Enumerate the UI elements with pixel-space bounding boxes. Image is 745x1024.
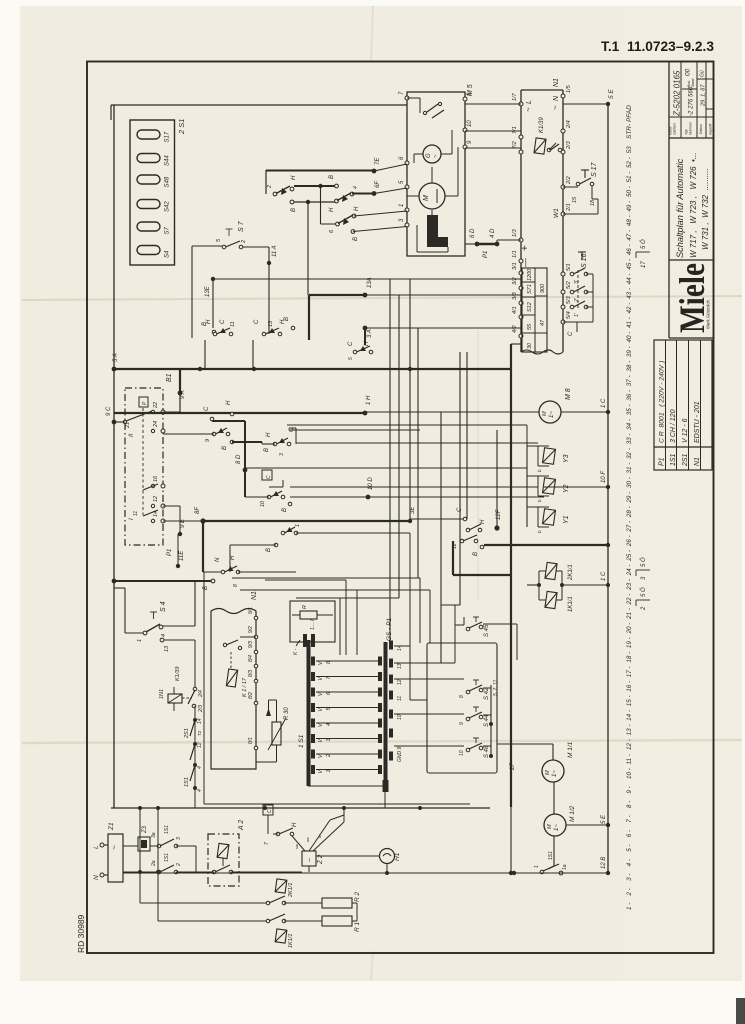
svg-text:3/2: 3/2 [512,277,518,285]
svg-text:M: M [545,770,551,775]
svg-text:2S1: 2S1 [184,728,190,739]
comb bottom pad [383,780,389,792]
svg-text:1 -: 1 - [626,903,633,910]
svg-text:13: 13 [397,663,403,669]
svg-text:H: H [291,175,297,180]
heavy wire 12F to bus [484,544,608,546]
svg-text:16 -: 16 - [626,681,633,692]
svg-text:12 B: 12 B [601,857,607,869]
wire bundle above combs [232,577,420,579]
svg-text:2S1: 2S1 [682,453,689,467]
svg-text:Z3: Z3 [142,825,148,834]
heater branch [138,806,142,810]
svg-text:3 A: 3 A [367,329,373,338]
svg-text:S 45: S 45 [484,624,490,637]
svg-text:~: ~ [110,845,119,850]
svg-text:14: 14 [197,718,203,724]
relay 1N1 K1/39 [168,694,182,703]
N1 module wavy box [211,609,256,770]
heater R1 [322,916,352,926]
contact S17 [576,182,580,186]
svg-text:GND 9: GND 9 [397,747,403,763]
svg-text:C: C [568,331,574,336]
lamp window S4 [137,246,160,255]
svg-text:N: N [93,875,100,880]
stub 9A [179,369,181,412]
svg-text:H: H [206,319,212,324]
svg-text:17: 17 [641,261,647,268]
svg-text:L: L [93,845,100,849]
svg-text:P1: P1 [167,549,173,556]
svg-text:II: II [129,433,135,437]
svg-text:K -: K - [293,648,299,655]
svg-text:42 -: 42 - [626,303,633,314]
switch S 48 [466,748,470,752]
line 5A (heavy) [114,368,511,370]
svg-text:20 -: 20 - [626,623,633,635]
svg-text:1 H: 1 H [366,395,372,405]
svg-text:S71: S71 [527,284,533,294]
line 6F heavy [372,191,377,196]
svg-text:3/1: 3/1 [512,262,518,270]
comb row 5 [311,703,315,712]
comb row 3 [311,734,315,743]
svg-text:N: N [215,557,221,562]
svg-text:5 E: 5 E [601,814,607,824]
N1 terminals [254,616,258,620]
svg-text:Gü: Gü [700,70,706,77]
svg-text:48 -: 48 - [626,215,633,226]
svg-text:9/1: 9/1 [248,607,254,614]
svg-text:9 E: 9 E [180,518,186,528]
P1 heater plug 6D-4D [477,243,497,246]
svg-text:G: G [426,153,432,158]
svg-text:1: 1 [137,639,143,642]
second bottom line [204,803,470,805]
svg-text:1S1: 1S1 [184,777,190,787]
svg-text:C: C [266,475,272,479]
svg-text:8/1: 8/1 [248,737,254,744]
svg-text:9 A: 9 A [180,390,186,399]
valve Y2 [543,478,556,494]
svg-text:5/1: 5/1 [566,263,572,271]
svg-text:B1: B1 [166,373,173,382]
svg-text:T.1 11.0723–9.2.3: T.1 11.0723–9.2.3 [601,38,714,54]
svg-text:~: ~ [307,858,314,862]
title data table [669,137,713,139]
svg-text:B: B [264,448,270,452]
svg-text:5/3: 5/3 [566,295,572,304]
svg-text:M 8: M 8 [565,388,572,400]
svg-text:31 -: 31 - [626,463,633,474]
svg-text:38 -: 38 - [626,361,633,372]
svg-text:11E: 11E [179,550,185,561]
svg-text:T2: T2 [197,730,202,736]
svg-text:10 F: 10 F [601,471,607,483]
svg-text:25 -: 25 - [626,550,633,562]
svg-text:1S1: 1S1 [164,825,170,834]
lamp window S44 [137,154,160,163]
svg-text:52 -: 52 - [626,157,633,168]
svg-text:—: — [520,258,530,267]
svg-text:3E: 3E [410,506,416,514]
svg-text:H1: H1 [394,852,401,861]
filter Z3 [138,837,150,851]
drawing border frame [87,62,714,954]
svg-text:K1/39: K1/39 [175,667,181,681]
svg-text:1~: 1~ [552,770,558,777]
svg-text:K1/39: K1/39 [539,117,545,133]
svg-text:6F: 6F [375,181,381,188]
svg-text:9/3: 9/3 [248,641,254,648]
svg-text:S7: S7 [165,226,171,234]
switch S4 [114,587,125,589]
svg-text:Nummer: Nummer [689,121,693,135]
S16 contact 2' [570,290,574,294]
svg-text:C: C [267,809,273,813]
svg-text:21 -: 21 - [626,608,633,620]
contact 3 [273,442,277,446]
svg-text:~: ~ [551,105,560,110]
svg-text:B: B [329,175,335,179]
terminal strip table [522,268,547,352]
svg-text:2: 2 [176,863,182,867]
svg-text:18: 18 [590,199,596,206]
svg-text:W 731 , W 732 ..........: W 731 , W 732 .......... [701,168,710,250]
node 3E [408,519,412,523]
valve Y3 [543,448,556,464]
svg-text:-2 276 560: -2 276 560 [688,86,695,116]
svg-text:4/1: 4/1 [512,306,518,314]
svg-text:Y2: Y2 [563,484,570,493]
svg-text:13: 13 [268,320,274,327]
fold lines [22,296,742,300]
svg-text:C: C [220,319,226,324]
svg-text:P1: P1 [659,457,666,466]
svg-text:28 -: 28 - [626,506,633,518]
svg-text:7 -: 7 - [626,815,633,822]
svg-text:A 2: A 2 [238,820,245,831]
svg-text:8/3: 8/3 [248,670,254,677]
svg-text:1200: 1200 [527,268,533,281]
contact 12F [466,528,470,532]
S16 actuator [578,251,586,253]
node 1H line [114,412,365,414]
svg-text:ws: ws [305,837,310,842]
svg-text:2K1/1: 2K1/1 [288,883,294,898]
svg-text:S48: S48 [165,176,171,187]
svg-text:3/3: 3/3 [512,291,518,300]
R 1...7 resistor box [290,601,335,642]
svg-text:2F: 2F [510,763,516,771]
svg-text:3: 3 [176,837,182,840]
contact 1 triangle [281,531,285,535]
svg-text:21: 21 [125,422,131,429]
svg-text:23 -: 23 - [626,579,633,591]
motor M1/2 [544,814,566,836]
svg-text:S 17: S 17 [591,161,598,177]
svg-text:4: 4 [161,634,167,637]
svg-text:4 -: 4 - [626,859,633,866]
svg-text:35 -: 35 - [626,404,633,415]
svg-text:STR- PFAD: STR- PFAD [626,105,633,139]
comb row 4 [311,719,315,728]
wire 13 [160,638,164,642]
signal lamp H1 [380,849,395,864]
svg-text:1: 1 [399,204,405,207]
svg-text:5 Ö: 5 Ö [640,239,647,249]
P motor box [139,397,148,407]
svg-text:8 D: 8 D [236,454,242,464]
svg-text:12: 12 [153,496,159,502]
comb row 7 [311,672,315,681]
svg-text:10 D: 10 D [368,477,374,490]
wires from GS-P1 to switches [394,645,410,647]
N1 right terminals [561,94,565,98]
svg-text:2 S1: 2 S1 [177,119,186,135]
svg-text:6 D: 6 D [470,228,476,238]
svg-text:9: 9 [459,722,465,725]
svg-text:1 C: 1 C [601,398,607,408]
contact group above Z2 [263,805,273,815]
switch S 42 [466,690,470,694]
svg-text:4: 4 [197,789,203,792]
svg-text:8 -: 8 - [626,801,633,808]
door lock A2 [208,834,239,886]
svg-text:2: 2 [326,754,332,758]
timer contacts [161,410,165,414]
svg-text:8/4: 8/4 [248,655,254,662]
svg-text:5/2: 5/2 [566,281,572,289]
svg-text:S4: S4 [165,250,171,258]
node feed + B line [112,579,117,584]
left vertical bus [113,105,115,808]
comb row 1 [311,765,315,774]
svg-text:Stand: Stand [691,78,695,87]
svg-text:51 -: 51 - [626,172,633,183]
top edge line [111,104,407,106]
comb top pads [303,634,307,647]
svg-text:N1: N1 [694,457,701,466]
contact 4 [335,199,339,203]
node 10D [366,495,371,500]
svg-text:H: H [480,519,486,524]
link H2 to B [294,185,336,187]
svg-text:W 717 , W 723 , W 726 •..: W 717 , W 723 , W 726 •... [689,152,698,258]
R30 sensor [272,722,281,745]
comb GS-P1 [384,642,388,792]
svg-text:4: 4 [353,186,359,189]
svg-text:B: B [353,237,359,241]
svg-text:M: M [542,411,548,416]
svg-text:17 -: 17 - [626,666,633,677]
lamp window S42 [137,200,160,209]
contact 6 [321,223,338,225]
svg-text:S44: S44 [165,155,171,166]
svg-text:Z1: Z1 [108,822,115,831]
tacho generator G [423,145,441,163]
svg-text:5, 7, 11: 5, 7, 11 [493,679,499,696]
svg-text:B: B [282,508,288,512]
motor unit M5 box [407,92,465,256]
box around S7 region [192,245,222,247]
svg-text:49 -: 49 - [626,201,633,212]
switch 1S1 1a [553,836,555,866]
node 3A [363,326,368,331]
svg-text:8/2: 8/2 [248,692,254,699]
svg-text:5 E: 5 E [608,89,615,99]
svg-text:H: H [280,319,286,324]
svg-text:9/2: 9/2 [248,626,254,633]
svg-text:14 -: 14 - [626,710,633,721]
svg-text:8F: 8F [195,507,201,514]
svg-text:2: 2 [267,185,273,189]
svg-text:+: + [520,245,531,251]
svg-text:5 A: 5 A [113,353,119,362]
svg-text:5: 5 [348,357,354,360]
svg-text:Y3: Y3 [563,454,570,463]
relay K1/39 (top) [534,138,546,154]
svg-text:4/2: 4/2 [512,325,518,333]
svg-text:29 -: 29 - [626,492,633,504]
svg-text:1/1: 1/1 [512,250,518,258]
rail B to contact 4 [290,200,294,204]
scan mark bottom right [736,998,745,1024]
node 11A [268,247,270,334]
contact 2/4 2/3 [193,687,197,691]
svg-text:2/3: 2/3 [566,140,572,150]
svg-text:H: H [266,432,272,437]
svg-text:1K1/1: 1K1/1 [568,596,574,612]
motor M1/1 [542,760,564,782]
svg-text:43 -: 43 - [626,288,633,299]
S17 actuator [581,169,589,171]
svg-text:M: M [547,824,553,829]
svg-text:12: 12 [397,679,403,685]
svg-text:2/2: 2/2 [566,176,572,185]
svg-text:22 -: 22 - [626,594,633,606]
svg-text:S12: S12 [527,302,533,312]
lamp window S48 [137,175,160,184]
svg-text:1: 1 [534,865,540,868]
heavy vertical 2F bus [510,344,512,807]
svg-text:1N1: 1N1 [159,689,165,699]
svg-text:4: 4 [197,766,203,769]
svg-text:N1: N1 [251,591,258,600]
svg-text:32 -: 32 - [626,448,633,459]
node 13A heavy [363,293,368,298]
svg-text:2/4: 2/4 [566,120,572,129]
svg-text:B: B [222,446,228,450]
svg-text:1/7: 1/7 [512,92,518,101]
contact C/H near 22 [210,417,214,421]
M5 right connections [465,103,521,105]
electronic unit N1 box [520,90,522,352]
svg-text:13E: 13E [205,285,211,297]
svg-text:3 CH / 120: 3 CH / 120 [670,409,677,443]
svg-text:S17: S17 [165,131,171,142]
title: Schaltplan cell [669,259,713,261]
svg-text:39 -: 39 - [626,346,633,357]
svg-text:H: H [354,206,360,211]
svg-text:M: M [423,195,430,201]
svg-text:C R 8001 ( 220V - 240V ): C R 8001 ( 220V - 240V ) [659,361,666,443]
svg-text:P1: P1 [483,251,489,258]
svg-text:N1: N1 [553,78,560,87]
svg-text:1: 1 [295,524,301,527]
svg-text:15 -: 15 - [626,695,633,706]
contact 10 [262,470,272,480]
svg-text:2/4: 2/4 [198,690,204,698]
svg-text:10: 10 [467,120,473,127]
svg-text:7: 7 [264,842,270,845]
switch S 44 [466,717,470,721]
svg-text:B: B [266,548,272,552]
svg-text:M 1/2: M 1/2 [569,805,576,822]
svg-text:37 -: 37 - [626,375,633,386]
svg-text:2/3: 2/3 [198,705,204,713]
svg-text:18 -: 18 - [626,652,633,663]
svg-text:34 -: 34 - [626,419,633,430]
svg-text:5/4: 5/4 [566,311,572,319]
svg-text:8: 8 [459,695,465,698]
svg-text:2a: 2a [151,860,157,867]
svg-text:L: L [526,100,533,104]
svg-text:5 Ö: 5 Ö [640,557,647,567]
svg-text:24: 24 [153,421,159,428]
svg-text:1/5: 1/5 [566,84,572,93]
12B rail [123,872,608,874]
svg-text:Werk Gütersloh: Werk Gütersloh [706,299,711,329]
svg-text:4 D: 4 D [490,228,496,238]
svg-text:41 -: 41 - [626,317,633,328]
svg-text:45 -: 45 - [626,259,633,270]
svg-text:10 -: 10 - [626,768,633,779]
svg-text:5 Ö: 5 Ö [640,587,647,597]
svg-text:V 12 - 6: V 12 - 6 [682,418,689,443]
svg-text:16: 16 [153,475,159,482]
svg-text:9 -: 9 - [626,786,633,793]
svg-text:H: H [292,822,298,827]
line 7E (heavy L) [372,169,377,174]
svg-text:3 -: 3 - [626,874,633,881]
svg-text:S 44: S 44 [484,714,490,727]
svg-text:13 -: 13 - [626,725,633,736]
svg-text:zeichen: zeichen [673,123,677,136]
svg-text:Y1: Y1 [563,515,570,524]
valve Y1 [543,509,556,525]
svg-text:3: 3 [279,453,285,456]
svg-text:B: B [291,208,297,212]
svg-text:12 -: 12 - [626,739,633,750]
svg-text:29. 1. 87: 29. 1. 87 [701,84,707,107]
svg-text:S42: S42 [165,201,171,212]
contact 1K1/1 [158,920,268,922]
N1 left terminals [519,102,523,106]
lamp window S17 [137,130,160,139]
motor M (M5) [419,183,445,209]
svg-text:8: 8 [233,584,239,587]
svg-text:2: 2 [241,240,247,244]
svg-text:19 -: 19 - [626,637,633,648]
svg-text:S 7: S 7 [238,220,245,232]
suppressor Z2 [302,851,316,866]
heater R2 [322,898,352,908]
svg-text:1~: 1~ [554,824,560,831]
svg-text:~: ~ [433,154,439,158]
svg-text:~: ~ [524,107,533,112]
svg-text:K 1 / 17: K 1 / 17 [242,677,248,697]
